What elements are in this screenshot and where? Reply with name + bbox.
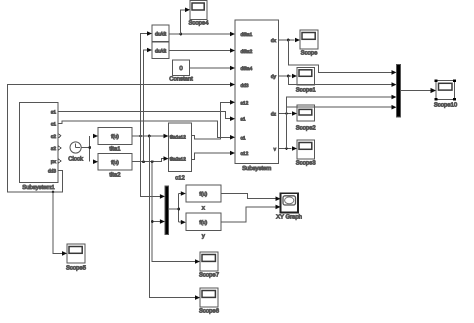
arrow into XY in2 <box>276 205 281 210</box>
arrow into Scope2 <box>292 111 297 116</box>
wire dz to Scope2 <box>279 113 292 115</box>
wire Mux1 to Scope10 <box>401 90 431 92</box>
svg-text:Scope10: Scope10 <box>434 102 458 109</box>
wire Constant out <box>190 67 231 69</box>
svg-text:f(u): f(u) <box>111 134 119 140</box>
svg-text:s12: s12 <box>241 101 249 107</box>
port marker s2 <box>59 146 62 150</box>
wire dy to Mux1 <box>288 76 391 85</box>
svg-text:dtita2: dtita2 <box>241 49 253 55</box>
port marker c2 <box>59 134 62 138</box>
wire c1 (Subsystem1.c1 to Subsystem.c1) <box>58 121 230 137</box>
port marker px <box>59 159 62 163</box>
svg-text:du/dt: du/dt <box>155 48 167 54</box>
arrow into Scope5 <box>62 251 67 256</box>
arrow into Scope <box>295 38 300 43</box>
svg-text:dd3: dd3 <box>48 168 56 174</box>
block tita2 (Fcn) <box>98 154 132 179</box>
junction dy <box>287 75 290 78</box>
block Subsystem <box>235 20 279 172</box>
svg-text:c1: c1 <box>241 135 246 141</box>
scope Scope1 <box>296 67 316 93</box>
block du/dt 1 (Derivative) <box>152 25 169 41</box>
junction dz <box>285 112 288 115</box>
scope Scope10 (selected) <box>434 79 458 108</box>
svg-text:c1: c1 <box>51 122 56 128</box>
svg-text:dd3: dd3 <box>241 83 249 89</box>
wire x to XY Graph <box>221 194 275 199</box>
svg-text:tita1s12: tita1s12 <box>170 134 187 139</box>
scope Scope2 <box>296 105 316 132</box>
arrow into XY in1 <box>276 196 281 201</box>
svg-text:f(u): f(u) <box>111 160 119 166</box>
scope Scope <box>300 30 318 57</box>
svg-text:Subsystem: Subsystem <box>242 165 271 172</box>
block du/dt 2 (Derivative) <box>152 42 169 59</box>
svg-text:Scope2: Scope2 <box>296 125 316 132</box>
svg-text:Scope6: Scope6 <box>199 308 220 315</box>
svg-text:dx: dx <box>271 38 277 44</box>
arrow into Subsystem dtita4 <box>230 66 235 71</box>
arrow into Scope10 <box>431 88 437 93</box>
arrow into Subsystem dd3 <box>230 82 235 87</box>
scope Scope7 <box>199 252 219 279</box>
svg-text:Clock: Clock <box>68 156 83 163</box>
svg-text:c12: c12 <box>175 175 185 182</box>
arrow into du/dt1 <box>147 31 152 36</box>
wire du/dt1 out <box>169 33 230 35</box>
svg-text:y: y <box>202 234 205 240</box>
scope Scope4 <box>189 1 210 27</box>
wire tita2 out <box>132 159 163 162</box>
junction tita2-V3 <box>142 160 145 163</box>
svg-text:dtita4: dtita4 <box>241 66 253 72</box>
wire dx to Mux1 <box>288 40 391 72</box>
svg-text:dy: dy <box>271 74 277 80</box>
block x (Fcn) <box>186 185 221 212</box>
arrow into tita1 <box>93 134 98 139</box>
wire V1 tita1 to du/dt1 and Mux2 <box>141 34 160 197</box>
svg-text:Constant: Constant <box>169 76 193 83</box>
arrow into Scope4 <box>185 8 190 13</box>
arrow into Scope6 <box>195 295 200 300</box>
arrow into tita2 <box>93 159 98 164</box>
wire Vd tita2 to Mux2 and Scope7 <box>152 162 195 262</box>
wire Vc tita1 to Scope6 <box>149 136 194 298</box>
svg-text:tita2: tita2 <box>109 172 120 179</box>
wire V3 tita2 to du/dt2 <box>144 50 148 162</box>
arrow into Scope3 <box>292 146 297 151</box>
wire dy to Scope1 <box>279 75 292 77</box>
arrow into Subsystem s12 <box>230 100 235 105</box>
block Subsystem1 <box>20 103 59 192</box>
svg-text:Scope7: Scope7 <box>199 272 219 279</box>
arrow into Mux1 in1 <box>392 70 397 75</box>
arrow into du/dt2 <box>147 48 152 53</box>
clock Clock <box>68 142 83 163</box>
wire c12 out1 to s12 <box>192 102 231 139</box>
scope Scope3 <box>296 140 317 167</box>
arrow into Subsystem dtita2 <box>230 48 235 53</box>
wire dz to Mux1 <box>287 97 392 114</box>
junction tita1-Vc <box>148 135 151 138</box>
svg-text:tita1: tita1 <box>109 146 120 153</box>
block tita1 (Fcn) <box>98 128 132 153</box>
svg-text:s1: s1 <box>51 109 56 115</box>
arrow into Mux1 in2 <box>392 82 397 87</box>
junction dudt1-Scope4 <box>179 33 182 36</box>
svg-text:Subsystem1: Subsystem1 <box>22 184 54 191</box>
svg-text:Scope1: Scope1 <box>296 87 316 94</box>
junction tita1-V1 <box>139 135 142 138</box>
svg-text:du/dt: du/dt <box>155 31 167 37</box>
block Constant <box>169 60 193 83</box>
wire Mux2 out <box>169 194 181 223</box>
mux Mux1 <box>397 65 401 117</box>
scope Scope6 <box>199 288 220 315</box>
arrow into Scope1 <box>292 74 297 79</box>
arrow into Subsystem c1 <box>230 135 235 140</box>
svg-text:Scope: Scope <box>301 50 318 57</box>
scope Scope5 <box>66 244 87 272</box>
arrow into c12 in1 <box>164 134 169 139</box>
svg-text:Scope3: Scope3 <box>296 160 317 167</box>
svg-text:Scope5: Scope5 <box>66 265 87 272</box>
block c12 <box>169 123 192 182</box>
wire v to Mux1 <box>287 107 392 148</box>
svg-text:px: px <box>51 160 57 165</box>
svg-text:c12: c12 <box>241 151 249 157</box>
wire du/dt2 out <box>169 50 230 52</box>
wire Clock out <box>81 136 90 162</box>
junction clock <box>88 146 91 149</box>
arrow into Subsystem dtita1 <box>230 32 235 37</box>
wire s1 (Subsystem1.s1 to Subsystem.s1) <box>58 111 230 118</box>
block XY Graph <box>276 193 302 220</box>
junction dd3-Scope5 <box>52 191 55 194</box>
svg-text:tita2s12: tita2s12 <box>170 157 187 162</box>
wire dd3 to Scope5 <box>53 192 62 253</box>
arrow into x block <box>181 191 186 196</box>
arrow into c12 in2 <box>164 156 169 161</box>
wire v to Scope3 <box>279 148 292 150</box>
block y (Fcn) <box>186 213 221 239</box>
arrow into Subsystem s1 <box>230 116 235 121</box>
svg-text:f(u): f(u) <box>199 220 207 226</box>
svg-text:s2: s2 <box>51 146 56 152</box>
junction Vd-mux2 <box>151 220 154 223</box>
arrow into Mux2 in2 <box>160 219 165 224</box>
wire y to XY Graph <box>221 207 275 222</box>
junction mux2 out <box>177 208 180 211</box>
junction v <box>285 147 288 150</box>
svg-text:x: x <box>202 206 205 212</box>
wire dd3 feedback loop <box>8 85 231 193</box>
wire c12 out2 to c12 input <box>192 153 231 159</box>
svg-text:c2: c2 <box>51 134 56 140</box>
arrow into Mux1 in3 <box>392 95 397 100</box>
arrow into Mux2 in1 <box>160 194 165 199</box>
svg-text:dz: dz <box>271 112 277 118</box>
arrow into Mux1 in4 <box>392 105 397 110</box>
mux Mux2 <box>165 186 169 235</box>
wire dx to Scope <box>279 39 295 41</box>
arrow into Subsystem c12 <box>230 151 235 156</box>
junction dx <box>287 39 290 42</box>
svg-text:f(u): f(u) <box>199 192 207 198</box>
svg-text:XY Graph: XY Graph <box>276 214 302 221</box>
wire to Scope4 <box>181 10 185 34</box>
svg-text:s1: s1 <box>241 117 246 123</box>
svg-text:dtita1: dtita1 <box>241 32 253 38</box>
svg-text:Scope4: Scope4 <box>189 20 210 27</box>
wire tita1 out <box>132 135 163 137</box>
junction tita2-Vd <box>151 160 154 163</box>
arrow into Scope7 <box>195 259 200 264</box>
arrow into y block <box>181 220 186 225</box>
